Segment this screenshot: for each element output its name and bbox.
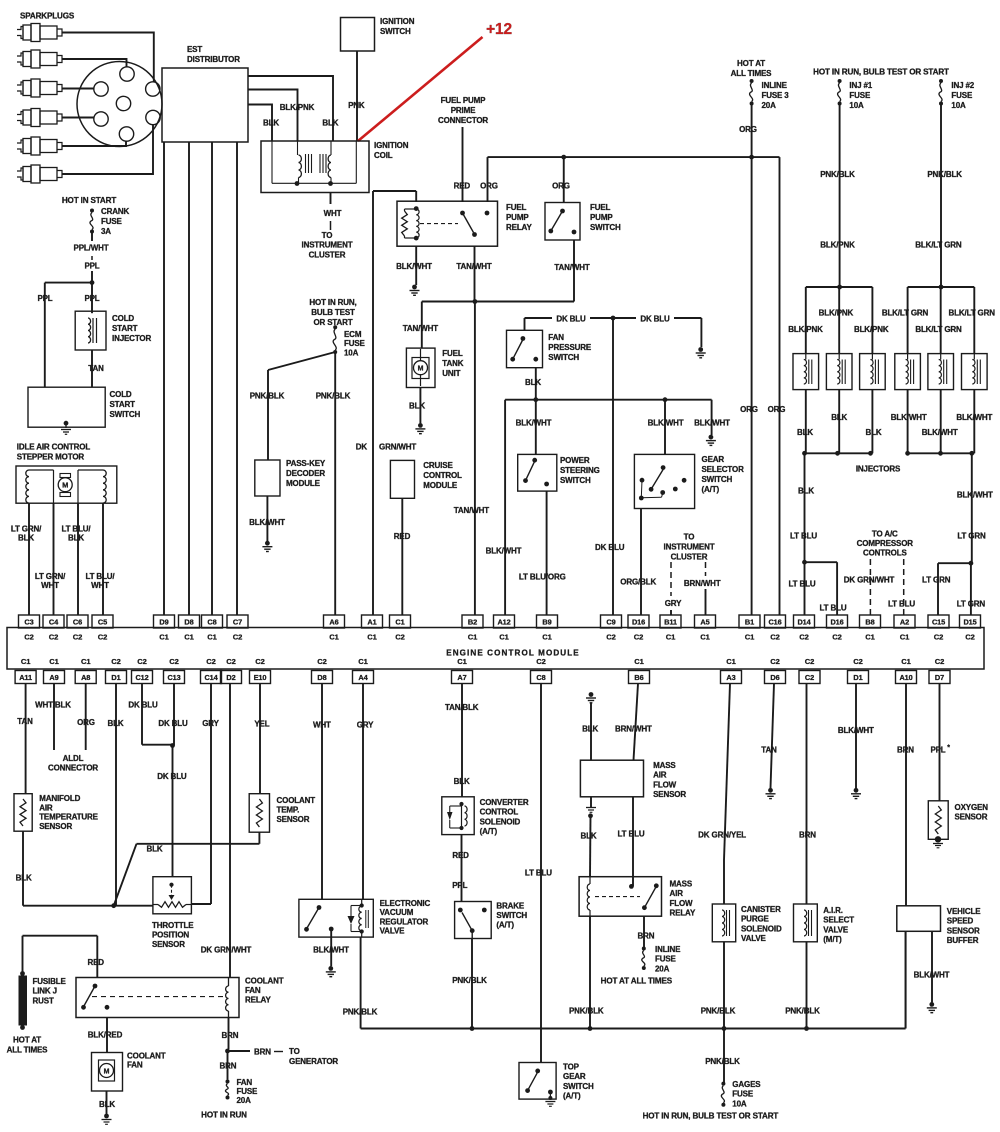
svg-text:A7: A7 (457, 673, 466, 682)
svg-text:OR START: OR START (313, 318, 352, 327)
svg-text:WHT/BLK: WHT/BLK (35, 701, 71, 710)
svg-text:ALL TIMES: ALL TIMES (7, 1046, 49, 1055)
svg-text:SENSOR: SENSOR (653, 790, 686, 799)
svg-text:C1: C1 (901, 657, 911, 666)
svg-text:FUEL: FUEL (506, 203, 527, 212)
svg-text:C1: C1 (700, 633, 710, 642)
svg-text:AIR: AIR (670, 889, 684, 898)
svg-text:20A: 20A (762, 101, 777, 110)
svg-text:FUSE: FUSE (951, 91, 973, 100)
svg-text:CONTROL: CONTROL (423, 471, 462, 480)
svg-text:20A: 20A (655, 964, 670, 973)
svg-text:BLK/LT GRN: BLK/LT GRN (915, 325, 962, 334)
svg-text:ORG: ORG (768, 405, 786, 414)
svg-text:MASS: MASS (670, 880, 693, 889)
svg-text:GENERATOR: GENERATOR (289, 1057, 338, 1066)
svg-text:PNK/BLK: PNK/BLK (569, 1007, 604, 1016)
svg-text:STEPPER MOTOR: STEPPER MOTOR (17, 453, 85, 462)
svg-text:SENSOR: SENSOR (955, 813, 988, 822)
svg-text:FLOW: FLOW (670, 899, 694, 908)
svg-text:DK BLU: DK BLU (640, 315, 670, 324)
svg-text:A12: A12 (497, 617, 510, 626)
svg-text:COLD: COLD (110, 390, 132, 399)
svg-text:SWITCH: SWITCH (560, 476, 591, 485)
svg-text:BLK/WHT: BLK/WHT (516, 419, 552, 428)
svg-text:DK BLU: DK BLU (128, 701, 158, 710)
svg-text:RELAY: RELAY (670, 909, 696, 918)
svg-text:C2: C2 (965, 633, 974, 642)
svg-text:C6: C6 (73, 617, 82, 626)
svg-text:COLD: COLD (112, 314, 134, 323)
svg-text:WHT: WHT (324, 209, 342, 218)
svg-text:HOT IN START: HOT IN START (62, 196, 116, 205)
svg-text:TAN/WHT: TAN/WHT (554, 263, 589, 272)
svg-text:C2: C2 (935, 657, 944, 666)
svg-text:MASS: MASS (653, 761, 676, 770)
svg-text:B2: B2 (468, 617, 477, 626)
svg-text:INSTRUMENT: INSTRUMENT (664, 543, 715, 552)
svg-text:RED: RED (394, 532, 411, 541)
svg-text:DK: DK (356, 443, 368, 452)
svg-text:TO: TO (289, 1047, 300, 1056)
svg-text:10A: 10A (732, 1099, 747, 1108)
svg-text:VALVE: VALVE (380, 927, 406, 936)
svg-text:INLINE: INLINE (762, 81, 788, 90)
svg-text:BLK/WHT: BLK/WHT (396, 262, 432, 271)
svg-text:LT GRN/: LT GRN/ (11, 525, 42, 534)
svg-text:ECM: ECM (344, 330, 362, 339)
svg-text:FUSE: FUSE (849, 91, 871, 100)
svg-text:TAN: TAN (88, 364, 104, 373)
svg-text:SPARKPLUGS: SPARKPLUGS (20, 12, 75, 21)
svg-text:INJECTORS: INJECTORS (856, 465, 901, 474)
svg-text:PUMP: PUMP (590, 213, 613, 222)
svg-text:HOT IN RUN, BULB TEST OR START: HOT IN RUN, BULB TEST OR START (813, 68, 949, 77)
svg-text:BLK/LT GRN: BLK/LT GRN (915, 241, 962, 250)
svg-text:RELAY: RELAY (506, 223, 532, 232)
svg-text:A4: A4 (358, 673, 368, 682)
svg-text:FUSE 3: FUSE 3 (762, 91, 790, 100)
svg-text:10A: 10A (849, 101, 864, 110)
svg-text:START: START (112, 324, 138, 333)
svg-text:DK BLU: DK BLU (157, 772, 187, 781)
svg-text:BUFFER: BUFFER (947, 936, 979, 945)
svg-text:B8: B8 (865, 617, 874, 626)
svg-text:BLK: BLK (322, 119, 338, 128)
svg-text:POSITION: POSITION (152, 931, 189, 940)
svg-text:BLK/PNK: BLK/PNK (820, 241, 855, 250)
svg-text:C16: C16 (768, 617, 781, 626)
svg-text:+12: +12 (486, 21, 512, 38)
svg-text:TO: TO (684, 533, 695, 542)
svg-text:C5: C5 (98, 617, 107, 626)
svg-text:C2: C2 (770, 633, 779, 642)
svg-text:CRUISE: CRUISE (423, 461, 453, 470)
svg-text:A11: A11 (19, 673, 32, 682)
svg-text:PNK/BLK: PNK/BLK (343, 1008, 378, 1017)
svg-text:BLK: BLK (798, 487, 814, 496)
svg-text:TEMP.: TEMP. (277, 806, 300, 815)
svg-text:PPL: PPL (452, 881, 467, 890)
svg-text:THROTTLE: THROTTLE (152, 921, 194, 930)
svg-text:LT BLU: LT BLU (888, 600, 915, 609)
svg-text:DK BLU: DK BLU (595, 543, 625, 552)
svg-text:SWITCH: SWITCH (590, 223, 621, 232)
svg-text:TAN/WHT: TAN/WHT (454, 506, 489, 515)
svg-text:ORG/BLK: ORG/BLK (620, 578, 656, 587)
svg-text:C2: C2 (799, 633, 808, 642)
svg-text:CONNECTOR: CONNECTOR (438, 116, 488, 125)
svg-text:SWITCH: SWITCH (702, 475, 733, 484)
svg-text:DK BLU: DK BLU (556, 315, 586, 324)
svg-text:CONTROL: CONTROL (480, 808, 519, 817)
svg-text:BRN/WHT: BRN/WHT (615, 725, 652, 734)
svg-text:CANISTER: CANISTER (741, 905, 781, 914)
svg-text:FUSE: FUSE (655, 955, 677, 964)
svg-text:PPL: PPL (37, 294, 52, 303)
svg-text:COOLANT: COOLANT (245, 977, 284, 986)
svg-text:PNK: PNK (348, 101, 365, 110)
svg-text:A6: A6 (329, 617, 338, 626)
svg-text:DECODER: DECODER (286, 469, 325, 478)
svg-text:COMPRESSOR: COMPRESSOR (857, 539, 914, 548)
svg-text:C1: C1 (634, 657, 644, 666)
svg-text:C2: C2 (169, 657, 178, 666)
svg-text:PPL/WHT: PPL/WHT (74, 244, 109, 253)
svg-text:C2: C2 (770, 657, 779, 666)
svg-text:TOP: TOP (563, 1063, 580, 1072)
svg-text:3A: 3A (101, 227, 111, 236)
svg-text:C2: C2 (73, 633, 82, 642)
svg-text:ORG: ORG (739, 125, 757, 134)
svg-text:PNK/BLK: PNK/BLK (785, 1007, 820, 1016)
svg-text:C1: C1 (329, 633, 339, 642)
svg-text:VALVE: VALVE (741, 934, 767, 943)
svg-text:TANK: TANK (442, 359, 463, 368)
svg-text:SWITCH: SWITCH (110, 410, 141, 419)
svg-text:FLOW: FLOW (653, 780, 677, 789)
svg-text:LT BLU/: LT BLU/ (85, 572, 115, 581)
svg-text:SOLENOID: SOLENOID (480, 817, 521, 826)
svg-text:PPL: PPL (930, 746, 945, 755)
svg-text:D14: D14 (797, 617, 811, 626)
svg-text:INJECTOR: INJECTOR (112, 334, 151, 343)
svg-text:20A: 20A (237, 1096, 252, 1105)
svg-text:GRN/WHT: GRN/WHT (379, 443, 416, 452)
svg-text:HOT AT ALL TIMES: HOT AT ALL TIMES (601, 976, 673, 985)
svg-text:GRY: GRY (202, 719, 219, 728)
svg-text:A5: A5 (700, 617, 709, 626)
svg-text:GRY: GRY (357, 721, 374, 730)
svg-text:BLK: BLK (525, 378, 541, 387)
svg-text:BLK: BLK (263, 119, 279, 128)
svg-text:BRN: BRN (220, 1062, 237, 1071)
svg-text:SENSOR: SENSOR (277, 815, 310, 824)
svg-text:C8: C8 (536, 673, 545, 682)
svg-text:C2: C2 (206, 657, 215, 666)
svg-text:C4: C4 (49, 617, 59, 626)
svg-text:BLK: BLK (99, 1100, 115, 1109)
svg-text:MODULE: MODULE (423, 481, 458, 490)
svg-text:C1: C1 (207, 633, 217, 642)
svg-text:PNK/BLK: PNK/BLK (820, 170, 855, 179)
svg-text:ORG: ORG (740, 405, 758, 414)
svg-text:AIR: AIR (653, 771, 667, 780)
svg-text:M: M (62, 481, 68, 490)
svg-text:C2: C2 (98, 633, 107, 642)
svg-text:C1: C1 (468, 633, 478, 642)
svg-text:SOLENOID: SOLENOID (741, 924, 782, 933)
svg-text:C3: C3 (24, 617, 33, 626)
svg-text:BLK: BLK (409, 402, 425, 411)
svg-text:FUSIBLE: FUSIBLE (33, 977, 67, 986)
svg-text:OXYGEN: OXYGEN (955, 803, 989, 812)
svg-text:C2: C2 (395, 633, 404, 642)
svg-text:HOT AT: HOT AT (737, 59, 765, 68)
svg-text:IGNITION: IGNITION (374, 141, 409, 150)
svg-text:CRANK: CRANK (101, 207, 130, 216)
svg-text:LT BLU: LT BLU (789, 580, 816, 589)
svg-text:REGULATOR: REGULATOR (380, 917, 429, 926)
svg-text:LT BLU: LT BLU (790, 532, 817, 541)
svg-text:C2: C2 (934, 633, 943, 642)
svg-text:C2: C2 (255, 657, 264, 666)
svg-text:FAN: FAN (245, 986, 261, 995)
svg-text:FUSE: FUSE (344, 339, 366, 348)
svg-text:A3: A3 (726, 673, 735, 682)
svg-text:C2: C2 (853, 657, 862, 666)
svg-text:SWITCH: SWITCH (563, 1082, 594, 1091)
svg-text:C2: C2 (226, 657, 235, 666)
svg-text:C2: C2 (111, 657, 120, 666)
svg-text:C1: C1 (358, 657, 368, 666)
svg-text:BLK: BLK (16, 874, 32, 883)
svg-text:D1: D1 (111, 673, 120, 682)
svg-text:ORG: ORG (552, 182, 570, 191)
svg-text:A.I.R.: A.I.R. (823, 906, 843, 915)
svg-text:BLK: BLK (147, 845, 163, 854)
svg-text:FUSE: FUSE (237, 1087, 259, 1096)
svg-text:C2: C2 (317, 657, 326, 666)
svg-text:C1: C1 (81, 657, 91, 666)
svg-text:PNK/BLK: PNK/BLK (701, 1007, 736, 1016)
svg-text:BLK/RED: BLK/RED (88, 1031, 123, 1040)
svg-text:PRIME: PRIME (451, 106, 476, 115)
svg-text:D16: D16 (632, 617, 645, 626)
svg-text:10A: 10A (951, 101, 966, 110)
svg-text:(A/T): (A/T) (496, 921, 514, 930)
svg-text:(A/T): (A/T) (480, 827, 498, 836)
svg-text:C15: C15 (932, 617, 945, 626)
svg-text:ORG: ORG (480, 182, 498, 191)
svg-text:PNK/BLK: PNK/BLK (250, 392, 285, 401)
svg-text:B9: B9 (542, 617, 551, 626)
svg-text:VEHICLE: VEHICLE (947, 907, 981, 916)
svg-text:IDLE AIR CONTROL: IDLE AIR CONTROL (17, 443, 91, 452)
svg-text:UNIT: UNIT (442, 369, 460, 378)
svg-text:FUEL: FUEL (590, 203, 611, 212)
svg-text:FUEL PUMP: FUEL PUMP (441, 96, 487, 105)
svg-text:D15: D15 (963, 617, 976, 626)
svg-text:HOT AT: HOT AT (13, 1036, 41, 1045)
svg-text:SWITCH: SWITCH (496, 911, 527, 920)
svg-text:D1: D1 (853, 673, 862, 682)
svg-text:PNK/BLK: PNK/BLK (927, 170, 962, 179)
svg-text:*: * (947, 745, 950, 752)
svg-text:POWER: POWER (560, 456, 590, 465)
svg-text:PASS-KEY: PASS-KEY (286, 459, 326, 468)
svg-text:A8: A8 (81, 673, 90, 682)
svg-text:TAN: TAN (17, 717, 33, 726)
svg-text:PUMP: PUMP (506, 213, 529, 222)
svg-text:BRN: BRN (637, 932, 654, 941)
svg-text:FAN: FAN (548, 333, 564, 342)
svg-text:HOT IN RUN,: HOT IN RUN, (309, 298, 356, 307)
svg-text:SENSOR: SENSOR (39, 822, 72, 831)
svg-text:GAGES: GAGES (732, 1080, 761, 1089)
svg-text:TAN/WHT: TAN/WHT (456, 262, 491, 271)
svg-text:GEAR: GEAR (563, 1072, 586, 1081)
svg-text:C1: C1 (49, 657, 59, 666)
svg-text:EST: EST (187, 45, 202, 54)
svg-text:D8: D8 (184, 617, 193, 626)
svg-text:SELECTOR: SELECTOR (702, 465, 745, 474)
svg-text:DK GRN/WHT: DK GRN/WHT (844, 576, 895, 585)
svg-text:INJ #1: INJ #1 (849, 81, 872, 90)
svg-text:FUSE: FUSE (732, 1090, 754, 1099)
svg-text:DK GRN/YEL: DK GRN/YEL (698, 831, 746, 840)
svg-text:RED: RED (87, 958, 104, 967)
svg-text:MODULE: MODULE (286, 479, 321, 488)
svg-text:A9: A9 (49, 673, 58, 682)
svg-text:A2: A2 (900, 617, 909, 626)
svg-text:(M/T): (M/T) (823, 935, 842, 944)
svg-text:SELECT: SELECT (823, 916, 854, 925)
svg-text:ELECTRONIC: ELECTRONIC (380, 899, 431, 908)
svg-text:B6: B6 (634, 673, 643, 682)
svg-text:D7: D7 (935, 673, 944, 682)
svg-text:BLK/WHT: BLK/WHT (313, 946, 349, 955)
svg-text:BLK/WHT: BLK/WHT (957, 491, 993, 500)
svg-text:A1: A1 (367, 617, 376, 626)
svg-text:(A/T): (A/T) (563, 1092, 581, 1101)
svg-text:PNK/BLK: PNK/BLK (452, 976, 487, 985)
svg-text:BLK/WHT: BLK/WHT (838, 726, 874, 735)
svg-text:B11: B11 (664, 617, 677, 626)
svg-text:C2: C2 (805, 673, 814, 682)
svg-text:YEL: YEL (254, 720, 269, 729)
svg-text:10A: 10A (344, 348, 359, 357)
svg-text:(A/T): (A/T) (702, 485, 720, 494)
svg-text:BRN: BRN (897, 746, 914, 755)
svg-text:PPL: PPL (84, 262, 99, 271)
svg-text:HOT IN RUN: HOT IN RUN (201, 1111, 247, 1120)
svg-text:DISTRIBUTOR: DISTRIBUTOR (187, 55, 240, 64)
svg-text:DK BLU: DK BLU (158, 719, 188, 728)
svg-text:C1: C1 (21, 657, 31, 666)
svg-text:D6: D6 (770, 673, 779, 682)
svg-text:BLK/WHT: BLK/WHT (922, 428, 958, 437)
svg-text:SWITCH: SWITCH (548, 353, 579, 362)
svg-text:LINK J: LINK J (33, 987, 57, 996)
svg-text:LT BLU/ORG: LT BLU/ORG (519, 573, 566, 582)
svg-text:BLK: BLK (582, 725, 598, 734)
svg-text:SENSOR: SENSOR (947, 926, 980, 935)
svg-text:D9: D9 (159, 617, 168, 626)
svg-text:C1: C1 (900, 633, 910, 642)
svg-text:D8: D8 (317, 673, 326, 682)
svg-text:BLK/WHT: BLK/WHT (486, 547, 522, 556)
svg-text:C12: C12 (135, 673, 148, 682)
svg-text:C1: C1 (726, 657, 736, 666)
svg-text:SWITCH: SWITCH (380, 27, 411, 36)
svg-text:BLK/WHT: BLK/WHT (249, 518, 285, 527)
svg-text:BLK/WHT: BLK/WHT (694, 419, 730, 428)
svg-text:GRY: GRY (665, 599, 682, 608)
svg-text:BRAKE: BRAKE (496, 902, 525, 911)
svg-text:BLK/PNK: BLK/PNK (788, 325, 823, 334)
svg-text:ORG: ORG (77, 718, 95, 727)
svg-text:LT BLU: LT BLU (618, 830, 645, 839)
svg-text:IGNITION: IGNITION (380, 17, 415, 26)
svg-text:C1: C1 (457, 657, 467, 666)
svg-text:C1: C1 (865, 633, 875, 642)
svg-text:STEERING: STEERING (560, 466, 600, 475)
svg-text:C1: C1 (184, 633, 194, 642)
svg-text:VACUUM: VACUUM (380, 908, 414, 917)
svg-text:FUSE: FUSE (101, 217, 123, 226)
svg-text:C1: C1 (159, 633, 169, 642)
svg-text:FAN: FAN (237, 1078, 253, 1087)
svg-text:BLK/WHT: BLK/WHT (956, 413, 992, 422)
svg-text:FAN: FAN (127, 1061, 143, 1070)
svg-text:C1: C1 (745, 633, 755, 642)
svg-text:LT GRN: LT GRN (922, 576, 951, 585)
svg-text:LT GRN/: LT GRN/ (35, 572, 66, 581)
svg-text:BRN: BRN (222, 1031, 239, 1040)
svg-text:VALVE: VALVE (823, 925, 849, 934)
svg-text:RED: RED (454, 182, 471, 191)
svg-text:BLK: BLK (797, 428, 813, 437)
svg-text:C2: C2 (49, 633, 58, 642)
svg-text:C2: C2 (233, 633, 242, 642)
svg-text:BLK: BLK (68, 534, 84, 543)
svg-text:START: START (110, 400, 136, 409)
svg-text:C2: C2 (536, 657, 545, 666)
svg-text:C2: C2 (832, 633, 841, 642)
svg-text:TO A/C: TO A/C (872, 530, 898, 539)
svg-text:BLK: BLK (866, 428, 882, 437)
svg-text:M: M (104, 1068, 110, 1075)
svg-text:C14: C14 (204, 673, 218, 682)
svg-text:COOLANT: COOLANT (127, 1052, 166, 1061)
svg-text:C2: C2 (137, 657, 146, 666)
svg-text:COIL: COIL (374, 151, 393, 160)
svg-text:CONTROLS: CONTROLS (863, 549, 908, 558)
svg-text:INSTRUMENT: INSTRUMENT (302, 241, 353, 250)
svg-text:TO: TO (322, 231, 333, 240)
svg-text:BLK: BLK (108, 719, 124, 728)
svg-text:BRN: BRN (799, 831, 816, 840)
svg-text:FUEL: FUEL (442, 349, 463, 358)
svg-text:BLK: BLK (18, 534, 34, 543)
svg-text:PURGE: PURGE (741, 915, 770, 924)
svg-text:PNK/BLK: PNK/BLK (316, 392, 351, 401)
svg-text:C1: C1 (499, 633, 509, 642)
svg-text:PNK/BLK: PNK/BLK (705, 1057, 740, 1066)
svg-text:SENSOR: SENSOR (152, 940, 185, 949)
svg-text:C7: C7 (233, 617, 242, 626)
